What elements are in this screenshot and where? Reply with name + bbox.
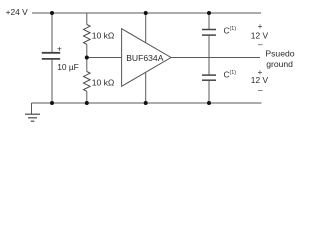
svg-text:+: + [57, 43, 62, 53]
wire 10uF capacitor branch top [51, 13, 53, 52]
svg-text:10 kΩ: 10 kΩ [92, 30, 115, 40]
svg-text:10 kΩ: 10 kΩ [92, 78, 115, 88]
wire between resistors [86, 44, 88, 71]
node dot bottom rail / V- branch [144, 101, 148, 105]
node dot resistor midpoint [85, 56, 89, 60]
wire resistor branch bottom lead [86, 91, 88, 103]
svg-text:ground: ground [266, 59, 293, 69]
wire op-amp input [87, 57, 122, 59]
svg-text:–: – [258, 85, 263, 95]
wire 10uF capacitor branch bottom [51, 60, 53, 104]
node dot bottom rail / resistor branch [85, 101, 89, 105]
node dot top rail / C1 branch [207, 11, 211, 15]
svg-text:–: – [258, 39, 263, 49]
svg-text:12 V: 12 V [251, 75, 269, 85]
wire top rail +24V [32, 12, 261, 14]
svg-text:10 µF: 10 µF [57, 62, 79, 72]
svg-text:Psuedo: Psuedo [265, 49, 294, 59]
node dot top rail / V+ branch [144, 11, 148, 15]
svg-text:C(1): C(1) [224, 26, 237, 36]
svg-text:BUF634A: BUF634A [126, 53, 164, 63]
wire op-amp V- supply [145, 72, 147, 103]
wire C1 top cap to output node [208, 36, 210, 58]
svg-text:+24 V: +24 V [6, 7, 29, 17]
wire ground drop [31, 103, 33, 114]
wire C1 bottom branch [208, 58, 210, 75]
capacitor C1 bottom plates [202, 75, 216, 80]
resistor R2 10k bottom [84, 72, 91, 92]
wire bottom rail [32, 102, 262, 104]
capacitor C1 top plates [202, 30, 216, 36]
svg-text:C(1): C(1) [224, 70, 237, 80]
wire C1 bottom cap to rail [208, 81, 210, 103]
wire op-amp output [171, 57, 260, 59]
capacitor C 10uF plates [42, 53, 60, 59]
wire C1 top branch [208, 13, 210, 29]
resistor R1 10k top [84, 25, 91, 45]
wire resistor branch top lead [86, 13, 88, 25]
node dot bottom rail / C1 branch [207, 101, 211, 105]
ground [25, 114, 40, 121]
node dot bottom rail / 10uF branch [50, 101, 54, 105]
wire op-amp V+ supply [145, 13, 147, 43]
node dot top rail / 10uF branch [50, 11, 54, 15]
op-amp U1 BUF634A triangle [122, 29, 171, 87]
